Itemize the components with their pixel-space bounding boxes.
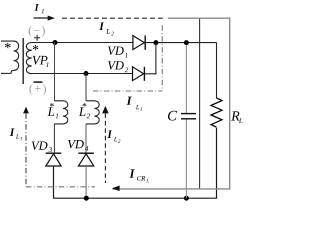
transformer core [22, 38, 24, 84]
label (-) secondary top [29, 26, 32, 36]
capacitor C bottom lead [185, 119, 187, 198]
inductor L2 [86, 101, 99, 124]
label VD2 [108, 61, 116, 69]
wire VD1 cathode rail [145, 42, 216, 44]
label + secondary top [34, 35, 40, 41]
polarity mark * primary [5, 43, 11, 48]
wire secondary bottom to VD2 anode [31, 73, 133, 75]
label VP1 [33, 56, 42, 65]
node dot VD4 bottom [84, 196, 89, 201]
label IL2 bottom [107, 130, 112, 138]
wire dash-dot bottom edge of diode loop [93, 90, 162, 92]
label C [168, 111, 177, 121]
wire dash-dot IL1 loop left [25, 113, 27, 186]
capacitor C plates [181, 114, 196, 119]
wire RL top lead [216, 43, 218, 98]
transformer T1 primary winding [1, 41, 19, 73]
node dot capacitor top [184, 40, 189, 45]
wire VD3 bottom lead and bottom rail to RL [54, 128, 217, 198]
label RL [231, 111, 239, 120]
wire dashed IL2 current path top [62, 17, 163, 19]
arrow I1 current direction [34, 16, 55, 21]
wire L2 branch vertical [85, 74, 87, 101]
label VD4 [68, 140, 76, 148]
polarity mark * L2 [82, 103, 86, 106]
diode VD3 [46, 153, 62, 166]
transformer T1 secondary winding VP1 [26, 43, 31, 74]
wire VD4 bottom lead [85, 166, 87, 198]
label IL2 top [99, 22, 104, 30]
diode VD2 [133, 67, 145, 81]
diode VD4 [78, 153, 94, 166]
diode VD1 [133, 35, 145, 49]
node dot VD2 riser joins rail [153, 40, 158, 45]
wire secondary top to VD1 anode [31, 42, 133, 44]
node dot L2 branch tee [84, 71, 89, 76]
label VD1 [108, 47, 116, 55]
label (+) secondary bottom [29, 84, 32, 94]
wire L1 branch vertical [54, 43, 56, 101]
capacitor C top lead [185, 43, 187, 113]
node dot capacitor bottom [184, 196, 189, 201]
label L1 [47, 107, 54, 116]
node dot secondary top / L1 branch [53, 40, 58, 45]
label ICRL [129, 169, 134, 177]
label IL1 mid [126, 97, 131, 105]
arrow ICRL on bottom rail [112, 186, 120, 192]
resistor RL zigzag [211, 98, 222, 127]
wire dashed IL2 vertical [104, 113, 106, 183]
inductor L1 [54, 101, 67, 124]
arrow IL2 dashed vertical [102, 106, 109, 114]
wire dash-dot right edge of diode loop [161, 25, 163, 91]
polarity mark * L1 [50, 103, 54, 106]
wire mid vertical [199, 18, 201, 188]
polarity mark * secondary [33, 45, 39, 50]
wire outer loop top right bottom [113, 18, 230, 189]
label minus secondary bottom [34, 81, 43, 83]
arrow IL1 dash-dot loop [23, 107, 29, 114]
label I1 [35, 4, 39, 11]
label IL1 left [10, 128, 15, 136]
label VD3 [32, 142, 40, 150]
label L2 [79, 107, 86, 116]
wire VD2 cathode riser [144, 43, 156, 74]
wire dash-dot IL1 loop bottom [26, 186, 95, 188]
